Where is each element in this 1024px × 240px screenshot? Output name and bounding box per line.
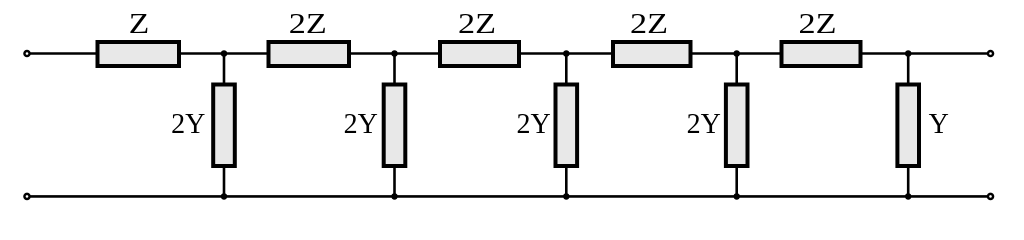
wire shunt branch 2 (393, 54, 396, 197)
svg-text:2Y: 2Y (171, 109, 205, 140)
node B2 junction dot bottom of branch 2 (391, 193, 398, 200)
node A5 junction dot top of branch 5 (905, 50, 912, 57)
node A4 junction dot top of branch 4 (733, 50, 740, 57)
svg-text:Y: Y (929, 109, 949, 140)
impedance Z5 value 2Z (series box) (782, 9, 861, 66)
terminal input top (open circle) (24, 51, 29, 56)
terminal output top (open circle) (988, 51, 993, 56)
impedance Z2 value 2Z (series box) (269, 9, 350, 66)
node A3 junction dot top of branch 3 (563, 50, 570, 57)
admittance Y5 value Y (shunt box) (897, 85, 948, 167)
svg-text:2Z: 2Z (289, 9, 327, 40)
wire shunt branch 3 (565, 54, 568, 197)
node B4 junction dot bottom of branch 4 (733, 193, 740, 200)
terminal output bottom (open circle) (988, 194, 993, 199)
node A2 junction dot top of branch 2 (391, 50, 398, 57)
admittance Y1 value 2Y (shunt box) (171, 85, 235, 167)
wire bottom rail (31, 195, 988, 198)
wire top rail (31, 52, 988, 55)
wire shunt branch 4 (735, 54, 738, 197)
svg-text:2Y: 2Y (516, 109, 550, 140)
wire shunt branch 1 (223, 54, 226, 197)
svg-text:2Z: 2Z (799, 9, 837, 40)
svg-text:2Y: 2Y (344, 109, 378, 140)
node B3 junction dot bottom of branch 3 (563, 193, 570, 200)
admittance Y3 value 2Y (shunt box) (516, 85, 577, 167)
node A1 junction dot top of branch 1 (221, 50, 228, 57)
svg-text:2Z: 2Z (458, 9, 496, 40)
impedance Z1 value Z (series box) (98, 9, 180, 66)
svg-text:Z: Z (129, 9, 150, 40)
node B1 junction dot bottom of branch 1 (221, 193, 228, 200)
svg-text:2Z: 2Z (630, 9, 668, 40)
admittance Y4 value 2Y (shunt box) (687, 85, 748, 167)
terminal input bottom (open circle) (24, 194, 29, 199)
impedance Z3 value 2Z (series box) (440, 9, 519, 66)
impedance Z4 value 2Z (series box) (613, 9, 691, 66)
wire shunt branch 5 (907, 54, 910, 197)
node B5 junction dot bottom of branch 5 (905, 193, 912, 200)
admittance Y2 value 2Y (shunt box) (344, 85, 406, 167)
svg-text:2Y: 2Y (687, 109, 721, 140)
